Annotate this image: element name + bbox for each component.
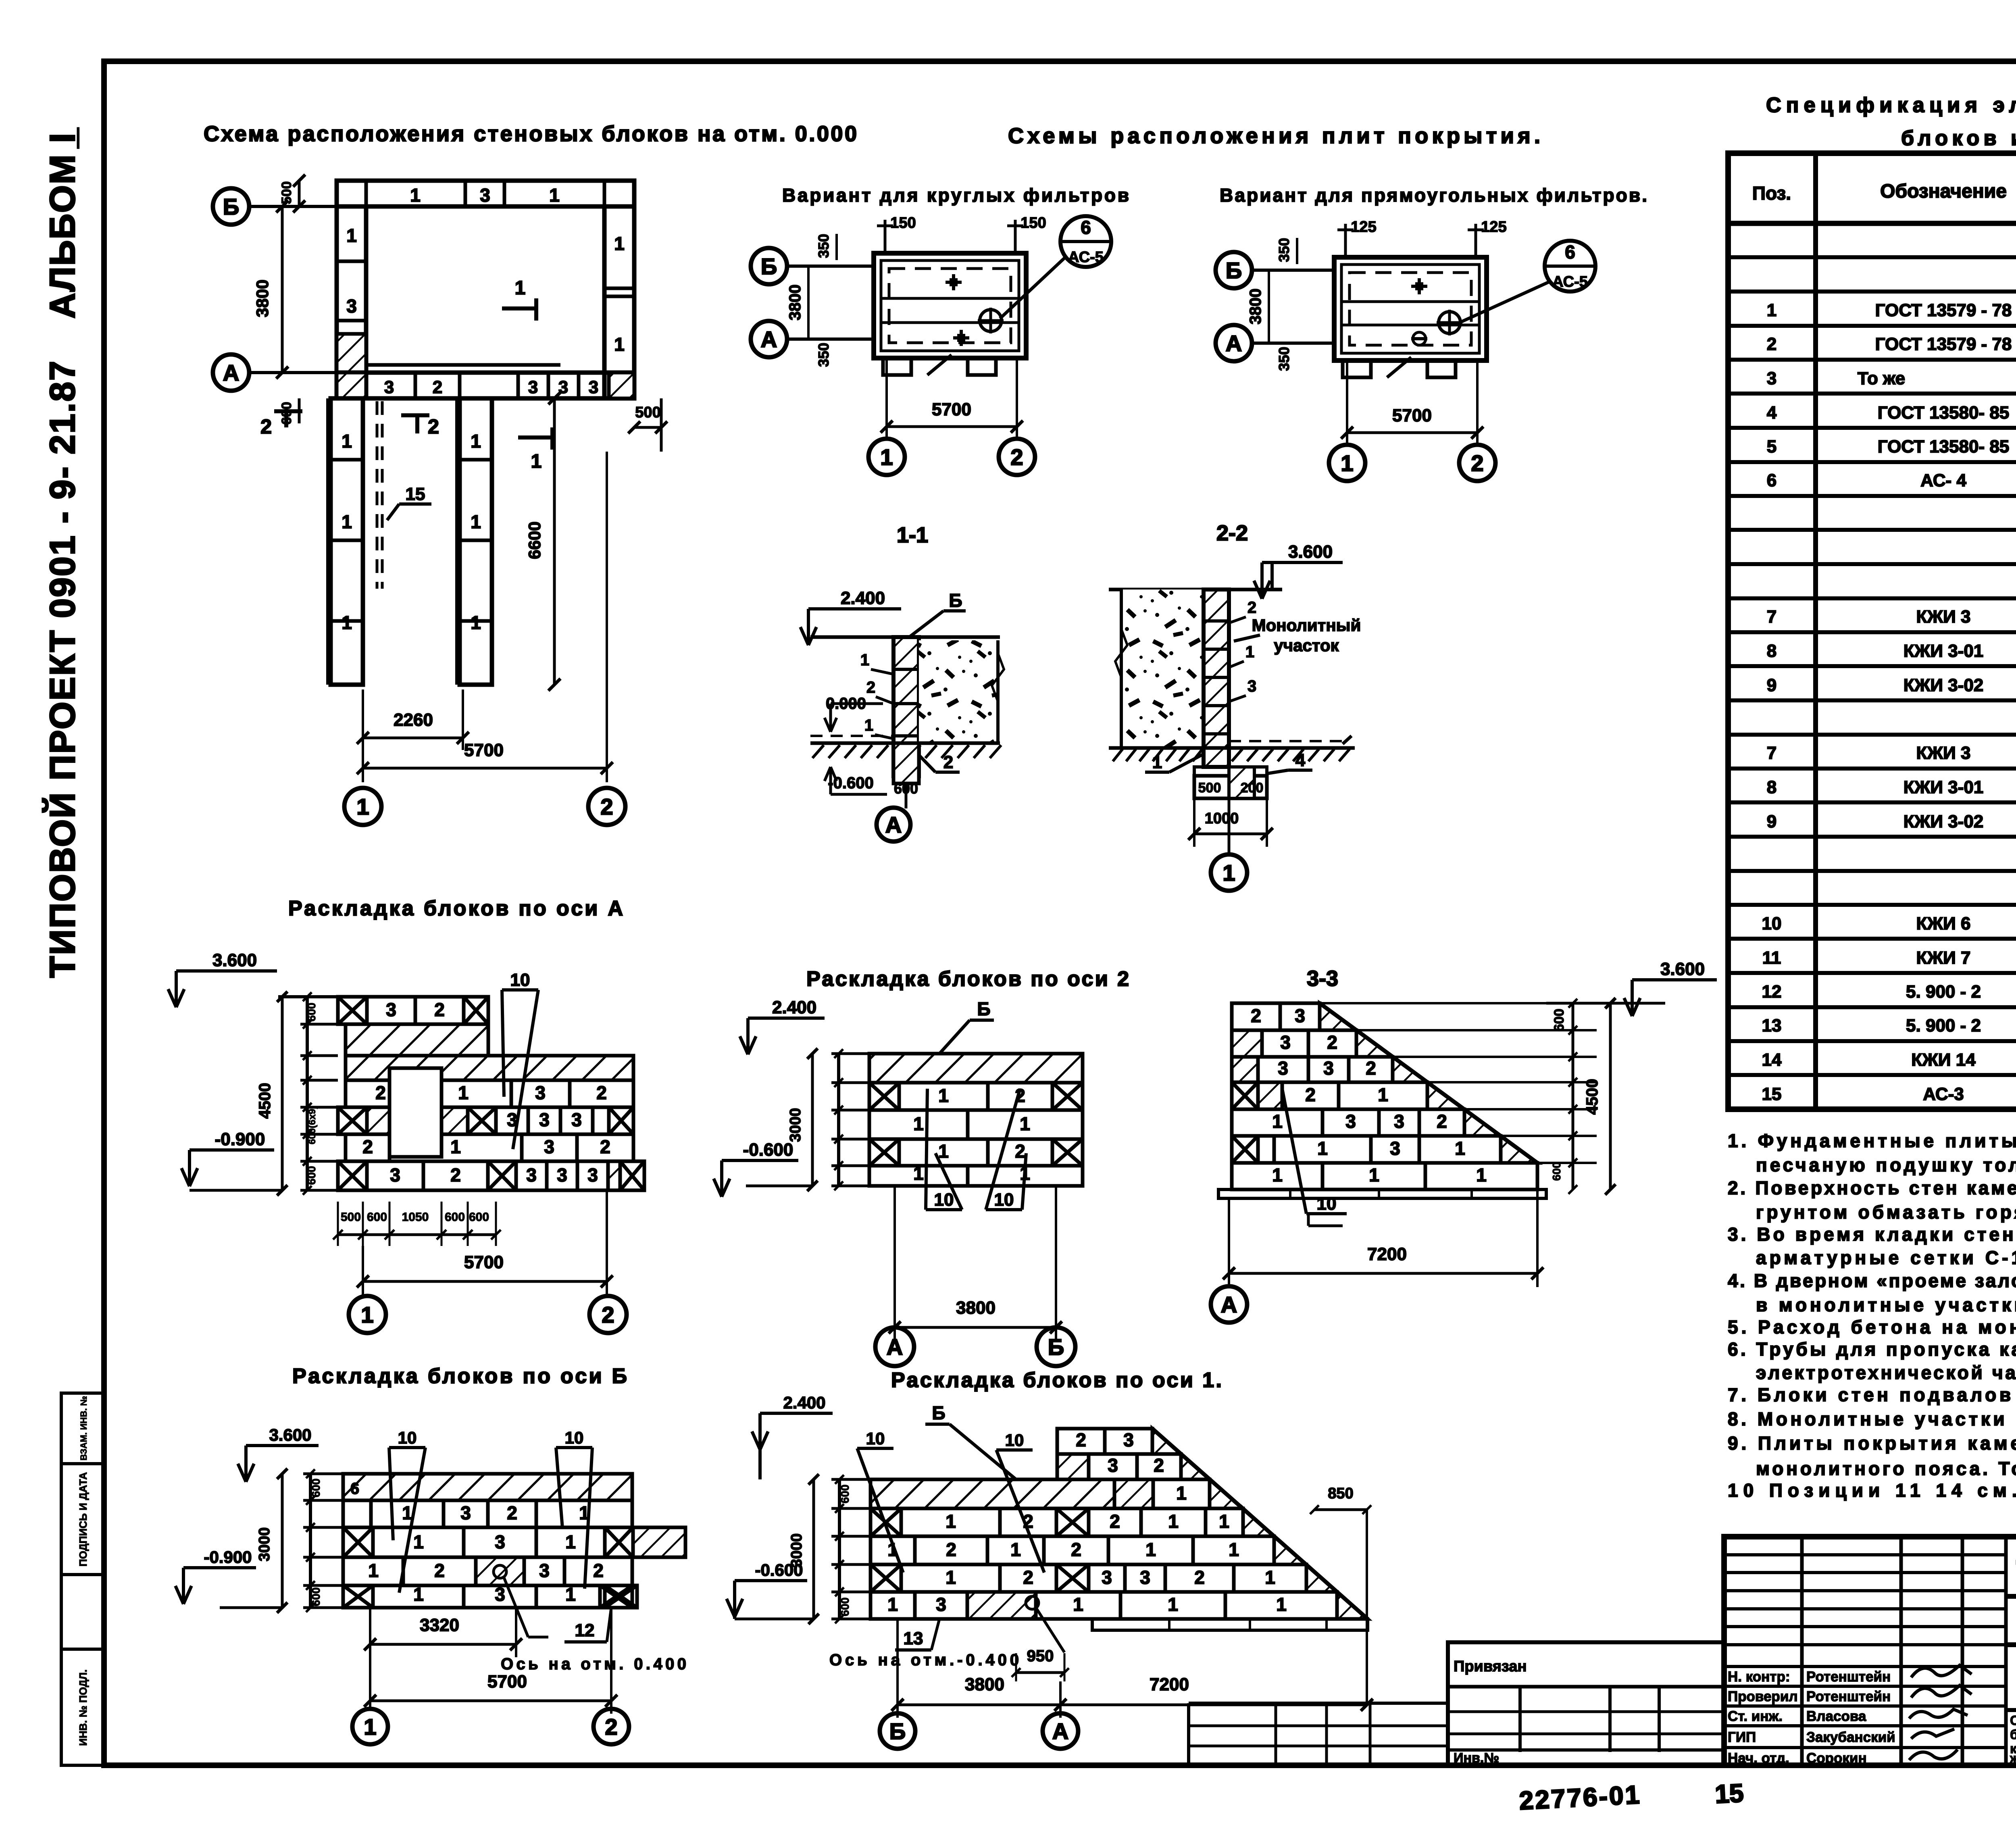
elevation 2 left dim 3000 [811, 1054, 814, 1186]
scheme1 marker cross 2 [953, 336, 969, 340]
svg-text:11: 11 [1762, 948, 1781, 968]
svg-text:3: 3 [1323, 1058, 1334, 1079]
svg-text:Ось на отм. 0.400: Ось на отм. 0.400 [501, 1655, 686, 1673]
plan dim 500 right [634, 426, 661, 429]
svg-text:АС- 4: АС- 4 [1920, 471, 1966, 490]
svg-text:ГОСТ 13580- 85: ГОСТ 13580- 85 [1878, 437, 2010, 456]
svg-text:Инв.№: Инв.№ [1454, 1750, 1499, 1766]
svg-text:10: 10 [1005, 1431, 1024, 1450]
svg-text:2: 2 [1305, 1084, 1316, 1105]
svg-text:1: 1 [913, 1113, 924, 1134]
svg-text:1050: 1050 [402, 1210, 429, 1224]
svg-text:1: 1 [1341, 450, 1353, 476]
elevation A row4 [346, 1080, 415, 1107]
svg-text:1: 1 [913, 1163, 924, 1184]
axis Б [880, 1713, 915, 1749]
svg-text:1: 1 [356, 794, 369, 819]
svg-text:1: 1 [410, 185, 421, 206]
privyazan box [1448, 1642, 1724, 1765]
svg-text:Б: Б [1048, 1334, 1064, 1360]
svg-text:2: 2 [1471, 450, 1483, 476]
plan axis circle Б leader [249, 205, 337, 208]
scheme2 dim 125 left [1344, 224, 1347, 257]
svg-text:1: 1 [946, 1511, 956, 1532]
svg-text:350: 350 [815, 343, 832, 367]
svg-text:3800: 3800 [965, 1675, 1004, 1694]
svg-text:Б: Б [889, 1719, 906, 1744]
svg-text:12: 12 [575, 1621, 595, 1640]
svg-text:3: 3 [460, 1502, 471, 1523]
svg-text:1: 1 [1455, 1138, 1465, 1159]
svg-text:6: 6 [1565, 242, 1575, 262]
svg-text:2: 2 [450, 1164, 461, 1185]
svg-text:1: 1 [938, 1085, 949, 1106]
elevation 1 hypotenuse [1152, 1429, 1368, 1619]
svg-text:10: 10 [398, 1428, 417, 1447]
section 2-2 ground line [1109, 746, 1355, 750]
svg-text:3.600: 3.600 [212, 950, 257, 970]
svg-text:-0.600: -0.600 [755, 1560, 803, 1579]
svg-text:КЖИ 3: КЖИ 3 [1916, 743, 1971, 763]
svg-text:2: 2 [434, 1560, 445, 1581]
axis Б [751, 248, 787, 284]
elevation 3-3 row 7 [1232, 1163, 1322, 1189]
svg-text:5700: 5700 [487, 1672, 527, 1692]
axis 1 [349, 1296, 386, 1333]
elevation 3-3 row 6 [1232, 1136, 1258, 1163]
svg-text:3: 3 [1248, 677, 1256, 695]
svg-text:2: 2 [1194, 1567, 1205, 1588]
svg-text:1: 1 [880, 444, 893, 470]
svg-text:5700: 5700 [1392, 406, 1432, 425]
svg-text:Б: Б [932, 1402, 945, 1423]
scheme2 dashed inner [1350, 273, 1471, 345]
svg-text:4. В дверном «проеме заложи: 4. В дверном «проеме заложить антисептир… [1728, 1270, 2016, 1291]
svg-text:1: 1 [614, 334, 625, 355]
svg-text:1: 1 [1152, 752, 1162, 772]
svg-text:600: 600 [310, 1587, 322, 1606]
svg-text:1: 1 [1073, 1594, 1083, 1615]
scheme2 inner lines [1341, 300, 1479, 303]
svg-text:600: 600 [839, 1485, 851, 1504]
svg-text:5: 5 [1767, 437, 1776, 456]
axis 2 [999, 439, 1035, 475]
scheme1 circled cross detail [980, 310, 1002, 331]
elevation B left ticks [309, 1474, 312, 1608]
svg-text:2: 2 [600, 1136, 610, 1157]
svg-text:2.400: 2.400 [783, 1393, 825, 1412]
svg-text:1: 1 [1767, 300, 1776, 320]
svg-text:Раскладка блоков по оси А: Раскладка блоков по оси А [288, 897, 623, 920]
svg-text:3800: 3800 [253, 279, 272, 317]
svg-text:Сорокин: Сорокин [1806, 1750, 1867, 1766]
svg-text:3320: 3320 [420, 1615, 459, 1635]
svg-text:600: 600 [305, 1003, 318, 1022]
svg-text:9: 9 [1767, 812, 1776, 831]
axis А [1216, 325, 1252, 361]
svg-text:-0.900: -0.900 [215, 1129, 265, 1149]
svg-text:Ротенштейн: Ротенштейн [1806, 1669, 1891, 1685]
svg-text:10: 10 [510, 970, 530, 990]
elevation B row2 [343, 1500, 371, 1527]
elevation 1 left ticks [838, 1479, 841, 1619]
svg-text:КЖИ 3-01: КЖИ 3-01 [1904, 641, 1984, 661]
svg-text:1-1: 1-1 [897, 523, 928, 547]
axis А [875, 1327, 914, 1366]
svg-text:1: 1 [864, 717, 873, 734]
svg-text:5700: 5700 [464, 1252, 504, 1272]
svg-text:500: 500 [279, 181, 294, 204]
elevation A top boundary line [278, 995, 488, 998]
svg-text:1: 1 [1265, 1567, 1275, 1588]
svg-text:КЖИ 3: КЖИ 3 [1916, 607, 1971, 627]
elevation B detail circle [494, 1565, 506, 1578]
elevation 1 top small row B [1057, 1454, 1089, 1479]
title block ТП row [2006, 1594, 2016, 1599]
plan corridor liner lines [326, 398, 329, 685]
svg-text:3: 3 [495, 1584, 505, 1605]
axis 2 [589, 1296, 627, 1333]
svg-text:2: 2 [1767, 334, 1776, 354]
svg-text:15: 15 [406, 484, 425, 504]
svg-text:1: 1 [1020, 1113, 1030, 1134]
svg-text:2: 2 [605, 1714, 617, 1739]
svg-text:1: 1 [565, 1584, 576, 1605]
svg-text:3: 3 [390, 1164, 400, 1185]
svg-text:2: 2 [866, 679, 875, 696]
svg-text:1: 1 [450, 1136, 461, 1157]
svg-text:КЖИ 7: КЖИ 7 [1916, 948, 1971, 968]
elevation 3-3 bottom plate strip [1218, 1189, 1546, 1198]
elevation A hatch strip 2 [346, 1056, 633, 1080]
elevation 3-3 right extension lines [1320, 1002, 1597, 1004]
axis Б [1216, 252, 1252, 288]
svg-text:10: 10 [1762, 914, 1782, 933]
svg-text:600: 600 [279, 402, 294, 425]
svg-text:3: 3 [1108, 1455, 1118, 1476]
svg-text:350: 350 [1276, 238, 1292, 262]
svg-text:Проверил: Проверил [1728, 1689, 1798, 1704]
section 1-1 axis А [905, 783, 908, 808]
svg-text:3800: 3800 [1247, 289, 1264, 325]
svg-text:3: 3 [557, 1164, 567, 1185]
elevation 3-3 right dim col [1572, 1003, 1574, 1189]
elevation B row3 [343, 1527, 373, 1557]
scheme2 legs [1343, 360, 1371, 377]
title block project name [2006, 1708, 2016, 1712]
svg-text:850: 850 [1328, 1485, 1353, 1502]
svg-text:Ст. инж.: Ст. инж. [1728, 1708, 1783, 1724]
svg-text:1: 1 [346, 225, 357, 246]
plan section mark 1 lower [518, 435, 552, 440]
svg-text:2: 2 [1154, 1455, 1164, 1476]
svg-text:3: 3 [1295, 1005, 1305, 1026]
scheme1 dim 150 right [1014, 220, 1017, 253]
elevation 3-3 row 5 [1232, 1109, 1322, 1136]
svg-text:600(6x9): 600(6x9) [307, 1106, 318, 1144]
svg-text:200: 200 [1241, 780, 1264, 796]
title block outer [1724, 1537, 2016, 1765]
svg-text:3: 3 [1280, 1032, 1291, 1053]
svg-text:1: 1 [1145, 1539, 1156, 1560]
svg-text:12: 12 [1762, 982, 1782, 1002]
svg-text:Б: Б [977, 998, 990, 1019]
svg-text:3: 3 [544, 1136, 554, 1157]
svg-text:1: 1 [938, 1141, 949, 1162]
plan axis circle А leader [249, 371, 337, 374]
elevation 1 bottom plates [1092, 1619, 1368, 1630]
svg-text:1: 1 [413, 1531, 424, 1552]
svg-text:Власова: Власова [1806, 1708, 1866, 1724]
svg-text:3.600: 3.600 [1288, 542, 1333, 562]
scheme1 axis Б [787, 265, 874, 268]
svg-text:3: 3 [1345, 1111, 1356, 1132]
svg-text:жения плит покрытия.: жения плит покрытия. [2010, 1751, 2016, 1766]
svg-text:1: 1 [1168, 1594, 1178, 1615]
svg-text:1: 1 [531, 451, 542, 472]
scheme1 axis А [787, 337, 874, 341]
svg-text:3: 3 [587, 1164, 598, 1185]
svg-text:3.600: 3.600 [1660, 959, 1705, 979]
svg-text:600: 600 [367, 1210, 387, 1224]
svg-text:2.400: 2.400 [772, 998, 816, 1017]
svg-text:2. Поверхность стен камеры: 2. Поверхность стен камеры и подпорной с… [1728, 1177, 2016, 1198]
svg-text:А: А [885, 812, 902, 837]
svg-text:2: 2 [596, 1082, 607, 1103]
section 2-2 wall hatched column [1204, 590, 1229, 767]
svg-text:3: 3 [528, 377, 538, 397]
svg-text:1: 1 [1276, 1594, 1287, 1615]
svg-text:3: 3 [480, 185, 490, 206]
svg-text:3: 3 [539, 1109, 550, 1130]
elevation 1 hatch strip row [871, 1479, 1114, 1508]
axis 1 [1211, 854, 1247, 891]
svg-text:3000: 3000 [787, 1108, 804, 1142]
svg-text:3: 3 [539, 1560, 550, 1581]
svg-text:3: 3 [495, 1531, 505, 1552]
axis 1 [352, 1709, 388, 1744]
svg-text:Б: Б [949, 590, 962, 611]
svg-text:500: 500 [1198, 780, 1221, 796]
svg-text:10: 10 [565, 1428, 584, 1447]
svg-text:2: 2 [1251, 1005, 1261, 1026]
elevation A row6 [346, 1134, 389, 1161]
scheme1 tank outer [874, 253, 1026, 358]
svg-text:1: 1 [1219, 1511, 1229, 1532]
plan lintel line [366, 363, 560, 367]
svg-text:1: 1 [614, 233, 625, 254]
svg-text:600: 600 [305, 1166, 318, 1185]
svg-text:2: 2 [260, 415, 272, 438]
axis А [1043, 1713, 1078, 1749]
elevation 2 row2 [869, 1083, 899, 1110]
svg-text:КЖИ 6: КЖИ 6 [1916, 914, 1971, 933]
svg-text:То же: То же [1858, 369, 1905, 388]
svg-text:1: 1 [471, 511, 481, 532]
elevation B row5 [343, 1585, 373, 1608]
section 1-1 ground surface line [810, 635, 1000, 639]
svg-text:1: 1 [471, 431, 481, 452]
svg-text:10: 10 [866, 1429, 885, 1448]
svg-text:3: 3 [384, 377, 394, 397]
svg-text:3: 3 [1140, 1567, 1150, 1588]
section 2-2 concrete mass [1121, 590, 1204, 748]
svg-text:участок: участок [1274, 636, 1339, 655]
svg-text:350: 350 [1276, 347, 1292, 371]
section 1-1 ground line [810, 742, 1000, 745]
svg-text:1: 1 [1223, 860, 1235, 885]
svg-text:А: А [1052, 1719, 1068, 1744]
svg-text:2: 2 [1010, 444, 1023, 470]
svg-text:3: 3 [1123, 1429, 1134, 1450]
scheme1 legs [883, 358, 911, 375]
svg-text:блоков на отм. 0.000. Раскла: блоков на отм. 0.000. Раскладка бло- [2010, 1727, 2016, 1742]
axis 1 [868, 439, 905, 475]
plan left wall axis 1 [337, 206, 366, 398]
section 2-2 foundation block [1194, 776, 1267, 798]
left annex table [1189, 1702, 1448, 1705]
svg-text:4500: 4500 [1583, 1079, 1601, 1115]
svg-text:2: 2 [428, 415, 439, 438]
svg-text:600: 600 [1550, 1162, 1563, 1181]
svg-text:500: 500 [341, 1210, 361, 1224]
svg-text:1: 1 [946, 1567, 956, 1588]
svg-text:6: 6 [1081, 217, 1091, 238]
elevation 3-3 hypotenuse [1320, 1003, 1537, 1163]
elevation 1 row3 [871, 1536, 915, 1564]
svg-text:1: 1 [368, 1560, 379, 1581]
svg-text:2: 2 [593, 1560, 604, 1581]
scheme2 dim 125 right [1475, 224, 1477, 257]
elevation A left dim 4500 [281, 997, 284, 1190]
title block signatures squiggles [1911, 1665, 1972, 1677]
svg-text:5700: 5700 [932, 400, 971, 419]
left margin strip [61, 1393, 104, 1765]
svg-text:2: 2 [1071, 1539, 1081, 1560]
svg-text:1: 1 [471, 612, 481, 633]
axis 2 [588, 788, 625, 825]
elevation 3-3 row 2 [1232, 1030, 1262, 1057]
svg-text:6: 6 [1767, 471, 1776, 490]
section 2-2 foundation plate 4 [1194, 767, 1267, 776]
svg-text:2: 2 [1023, 1567, 1033, 1588]
svg-text:3: 3 [589, 377, 598, 397]
svg-text:Раскладка блоков по оси 1.: Раскладка блоков по оси 1. [891, 1369, 1222, 1392]
axis 2 [594, 1709, 629, 1744]
svg-text:1: 1 [342, 511, 352, 532]
svg-text:7: 7 [1767, 607, 1776, 627]
svg-text:2: 2 [1437, 1111, 1447, 1132]
axis А [1211, 1286, 1247, 1323]
svg-text:6600: 6600 [525, 521, 544, 559]
svg-text:АЛЬБОМ I̲: АЛЬБОМ I̲ [42, 127, 82, 319]
elevation A door opening [389, 1068, 442, 1157]
elevation 1 detail circle [1026, 1596, 1039, 1609]
section 1-1 wall column hatched [893, 637, 919, 776]
svg-text:2-2: 2-2 [1216, 521, 1248, 545]
axis 2 [1459, 445, 1495, 481]
svg-text:2: 2 [1248, 599, 1256, 617]
svg-text:1: 1 [342, 612, 352, 633]
scheme2 circled cross detail [1439, 312, 1460, 333]
svg-text:Б: Б [223, 194, 239, 219]
axis Б [213, 188, 249, 225]
svg-text:1000: 1000 [1205, 810, 1239, 827]
plan dim 6600 [553, 398, 556, 685]
svg-text:Б: Б [1226, 258, 1242, 283]
svg-text:1: 1 [361, 1302, 373, 1327]
svg-text:1: 1 [458, 1082, 469, 1103]
elevation 1 left dim 3000 [812, 1479, 815, 1619]
svg-text:600: 600 [1552, 1009, 1567, 1032]
svg-text:4: 4 [1767, 403, 1777, 423]
svg-text:Раскладка блоков по оси Б: Раскладка блоков по оси Б [292, 1364, 627, 1388]
plan corridor middle wall [460, 398, 492, 685]
svg-text:КЖИ 3-02: КЖИ 3-02 [1904, 812, 1984, 831]
svg-text:8: 8 [1767, 777, 1776, 797]
svg-text:3: 3 [1394, 1111, 1404, 1132]
axis А [751, 321, 787, 357]
plan section mark 1 right upper [502, 306, 536, 310]
elevation B hatch strip [343, 1474, 632, 1500]
svg-text:10: 10 [1317, 1194, 1337, 1214]
scheme2 ref circle 6 АС-5 [1545, 241, 1595, 292]
section 1-1 wall bottom part [893, 743, 919, 783]
svg-text:15: 15 [1714, 1778, 1744, 1809]
svg-text:500: 500 [635, 404, 660, 421]
elevation 2 row5 [869, 1166, 968, 1186]
svg-text:1: 1 [342, 431, 352, 452]
elevation 1 row4 [871, 1564, 901, 1592]
svg-text:10: 10 [994, 1190, 1014, 1210]
elevation 2 row3 [869, 1110, 968, 1139]
elevation A row1 [338, 997, 367, 1024]
scheme2 axis А [1252, 342, 1334, 345]
svg-text:3800: 3800 [956, 1298, 996, 1318]
svg-text:ГОСТ 13580- 85: ГОСТ 13580- 85 [1878, 403, 2010, 423]
svg-text:6: 6 [350, 1480, 359, 1498]
plan right wall axis 2 [604, 206, 634, 398]
svg-text:7200: 7200 [1367, 1244, 1407, 1264]
svg-text:2: 2 [1076, 1429, 1086, 1450]
svg-text:150: 150 [890, 215, 916, 231]
elevation 2 row4 [869, 1139, 899, 1166]
svg-text:1: 1 [1176, 1483, 1187, 1504]
svg-text:2260: 2260 [394, 710, 433, 730]
svg-text:Привязан: Привязан [1454, 1658, 1527, 1675]
axis Б [1037, 1327, 1075, 1366]
svg-text:А: А [761, 327, 777, 352]
svg-text:Нач. отд.: Нач. отд. [1728, 1750, 1789, 1766]
svg-text:3: 3 [1767, 369, 1776, 388]
svg-text:2: 2 [1366, 1058, 1376, 1079]
svg-text:5. 900 - 2: 5. 900 - 2 [1906, 1016, 1981, 1035]
svg-text:ПОДПИСЬ И ДАТА: ПОДПИСЬ И ДАТА [77, 1472, 89, 1567]
elevation 1 row2 [871, 1508, 901, 1536]
svg-text:1: 1 [413, 1584, 424, 1605]
svg-text:3: 3 [1102, 1567, 1112, 1588]
svg-text:2: 2 [1015, 1141, 1025, 1162]
svg-text:монолитного пояса. Толщина: монолитного пояса. Толщина сварного шва … [1756, 1458, 2016, 1479]
spec table row lines [1728, 255, 2016, 259]
svg-text:7: 7 [1767, 743, 1776, 763]
svg-text:Схема расположения стеновы: Схема расположения стеновых [2010, 1713, 2016, 1728]
scheme2 axis Б [1252, 269, 1334, 272]
svg-text:600: 600 [469, 1210, 489, 1224]
axis 1 [344, 788, 381, 825]
elevation 3-3 row 3 [1232, 1057, 1258, 1082]
svg-text:3800: 3800 [786, 285, 804, 321]
